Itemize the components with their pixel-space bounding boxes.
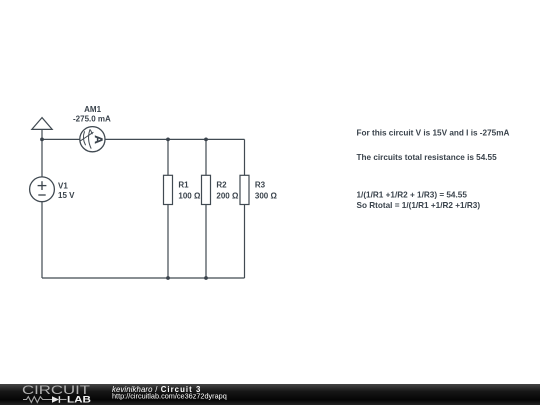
junction: R2 top bbox=[204, 138, 208, 142]
wire: R2 branch vertical bbox=[205, 139, 207, 278]
svg-text:A: A bbox=[92, 135, 104, 144]
svg-text:R1: R1 bbox=[178, 180, 189, 189]
svg-text:R3: R3 bbox=[255, 180, 266, 189]
svg-text:For this circuit V is 15V and: For this circuit V is 15V and I is -275m… bbox=[357, 129, 510, 138]
resistor R2 bbox=[202, 175, 211, 204]
voltage source V1 bbox=[30, 177, 55, 202]
svg-text:So Rtotal = 1/(1/R1 +1/R2 +1/R: So Rtotal = 1/(1/R1 +1/R2 +1/R3) bbox=[357, 201, 481, 210]
logo resistor zigzag bbox=[23, 397, 52, 403]
junction: flag node bbox=[40, 138, 44, 142]
svg-text:15 V: 15 V bbox=[58, 191, 75, 200]
junction: R1 bottom bbox=[166, 276, 170, 280]
wire: bottom horizontal rail bbox=[42, 277, 245, 279]
svg-text:LAB: LAB bbox=[67, 395, 91, 405]
resistor R1 bbox=[164, 175, 173, 204]
wire: top horizontal rail bbox=[42, 138, 245, 140]
resistor R3 bbox=[240, 175, 249, 204]
node flag (net marker) bbox=[32, 118, 52, 130]
ammeter AM1 bbox=[80, 127, 105, 152]
svg-text:200 Ω: 200 Ω bbox=[216, 192, 239, 201]
logo diode bbox=[52, 396, 67, 403]
footer bar bbox=[0, 384, 540, 405]
svg-text:-275.0 mA: -275.0 mA bbox=[73, 115, 111, 124]
wire: left vertical branch (flag to bottom rail through V1) bbox=[41, 129, 43, 278]
svg-text:AM1: AM1 bbox=[84, 105, 101, 114]
svg-text:V1: V1 bbox=[58, 181, 68, 190]
junction: R2 bottom bbox=[204, 276, 208, 280]
wire: R1 branch vertical bbox=[167, 139, 169, 278]
svg-text:http://circuitlab.com/ce36z72d: http://circuitlab.com/ce36z72dyrapq bbox=[112, 392, 227, 401]
svg-text:100 Ω: 100 Ω bbox=[178, 192, 201, 201]
junction: R1 top bbox=[166, 138, 170, 142]
svg-text:1/(1/R1 +1/R2 + 1/R3) = 54.55: 1/(1/R1 +1/R2 + 1/R3) = 54.55 bbox=[357, 191, 468, 200]
svg-text:300 Ω: 300 Ω bbox=[255, 192, 278, 201]
svg-text:R2: R2 bbox=[216, 180, 227, 189]
wire: R3 branch vertical bbox=[244, 139, 246, 278]
svg-text:The circuits total resistance: The circuits total resistance is 54.55 bbox=[357, 153, 498, 162]
